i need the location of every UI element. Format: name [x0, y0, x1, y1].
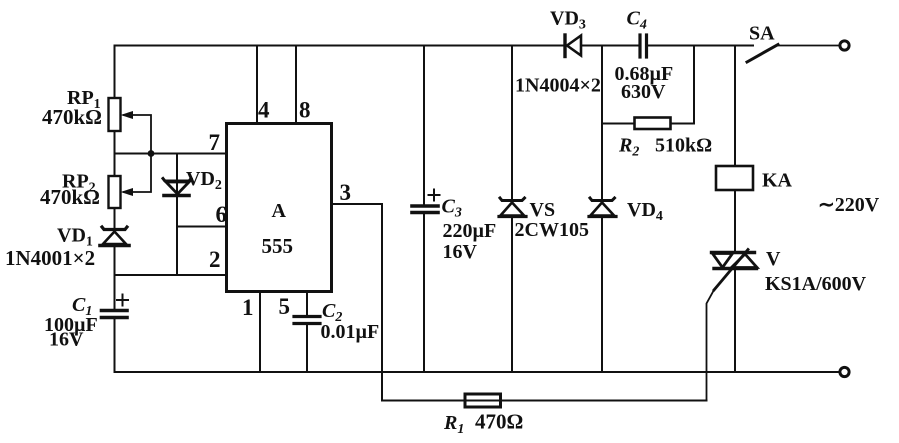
wire pin6 net	[177, 226, 226, 228]
wire pin4	[256, 46, 258, 124]
wire left rail RP1-RP2	[114, 131, 116, 176]
plus sign C1	[117, 295, 128, 306]
svg-text:16V: 16V	[49, 329, 84, 351]
svg-text:R1: R1	[443, 412, 464, 437]
svg-text:6: 6	[216, 202, 228, 227]
wire R1 line	[382, 400, 707, 402]
svg-text:1: 1	[242, 295, 254, 320]
wire KA branch upper	[734, 46, 736, 167]
svg-text:KS1A/600V: KS1A/600V	[765, 273, 867, 295]
wire triac to bottom bus	[734, 268, 736, 372]
svg-text:VS: VS	[530, 199, 556, 221]
svg-text:630V: 630V	[621, 81, 666, 103]
wire KA to triac	[734, 190, 736, 252]
wire VD4 branch upper	[601, 46, 603, 202]
wire pin5 below C2	[306, 324, 308, 373]
resistor RP1	[109, 98, 121, 131]
wire R2 branch	[602, 123, 634, 125]
wire pin2 net	[115, 274, 227, 276]
diode VD1	[100, 227, 129, 246]
plus sign C3	[429, 190, 440, 201]
wire C3 branch upper	[423, 46, 425, 205]
svg-text:C3: C3	[442, 196, 462, 221]
wire pin8	[295, 46, 297, 124]
svg-text:A: A	[272, 200, 287, 222]
wire C3 branch lower	[423, 213, 425, 373]
svg-text:1N4001×2: 1N4001×2	[5, 246, 95, 270]
resistor R1	[465, 394, 501, 407]
diode VD3	[565, 35, 581, 57]
svg-text:7: 7	[209, 130, 221, 155]
wire pin5	[306, 292, 308, 316]
wiper arrow RP1	[124, 115, 151, 154]
svg-text:C4: C4	[627, 8, 647, 33]
svg-text:2CW105: 2CW105	[515, 219, 589, 241]
relay coil KA	[716, 166, 753, 190]
svg-text:470kΩ: 470kΩ	[42, 105, 102, 129]
wire SA to terminal	[778, 45, 839, 47]
wire VD4 branch lower	[601, 217, 603, 372]
diode VD2	[163, 179, 191, 196]
wire left rail C1-bottom	[114, 318, 116, 372]
svg-text:8: 8	[299, 98, 311, 123]
switch SA blade	[747, 45, 778, 63]
svg-text:2: 2	[209, 247, 221, 272]
wire left rail VD1-C1	[114, 246, 116, 309]
svg-text:VD2: VD2	[186, 168, 222, 193]
svg-text:470Ω: 470Ω	[475, 410, 523, 434]
svg-text:3: 3	[340, 180, 352, 205]
svg-text:VD3: VD3	[550, 8, 586, 33]
svg-text:16V: 16V	[443, 241, 478, 263]
svg-text:1N4004×2: 1N4004×2	[515, 75, 601, 97]
wire top bus right segment (C4 to SA)	[647, 45, 753, 47]
svg-text:4: 4	[258, 98, 270, 123]
wire VS branch upper	[511, 46, 513, 202]
svg-text:510kΩ: 510kΩ	[655, 135, 712, 157]
svg-text:555: 555	[262, 234, 294, 258]
wire VS branch lower	[511, 217, 513, 372]
wire pin1 ground	[259, 292, 261, 372]
svg-text:220µF: 220µF	[443, 220, 497, 242]
capacitor C1	[102, 309, 128, 313]
wire triac gate	[714, 250, 748, 291]
node junction wiper/pin7	[148, 150, 155, 157]
terminal top right	[840, 41, 849, 50]
wire pin7 net	[115, 153, 227, 155]
capacitor C4	[638, 35, 641, 57]
svg-text:470kΩ: 470kΩ	[40, 185, 100, 209]
wire left rail RP2-VD1	[114, 208, 116, 227]
wire VD2 branch vertical	[176, 154, 178, 276]
svg-text:R2: R2	[618, 135, 639, 160]
svg-text:KA: KA	[762, 170, 793, 192]
svg-text:SA: SA	[749, 23, 775, 45]
capacitor C2	[294, 315, 320, 318]
diode VD4	[589, 198, 616, 217]
resistor RP2	[109, 176, 121, 208]
wire pin3 output	[332, 204, 382, 401]
op-amp U1 555 timer box	[227, 124, 332, 292]
resistor R2	[635, 118, 671, 130]
wire top bus left segment	[115, 46, 564, 99]
svg-text:5: 5	[279, 294, 291, 319]
wiper arrow RP2	[124, 154, 151, 193]
triac V	[712, 253, 758, 269]
svg-text:V: V	[766, 248, 781, 270]
capacitor C3	[412, 204, 438, 208]
wire top bus middle segment (VD3 to C4)	[581, 45, 639, 47]
svg-text:∼220V: ∼220V	[818, 194, 880, 216]
zener VS	[499, 198, 526, 217]
svg-text:VD4: VD4	[627, 199, 663, 224]
wire bottom bus	[115, 371, 840, 373]
svg-text:0.01µF: 0.01µF	[321, 321, 380, 343]
terminal bottom right	[840, 367, 849, 376]
